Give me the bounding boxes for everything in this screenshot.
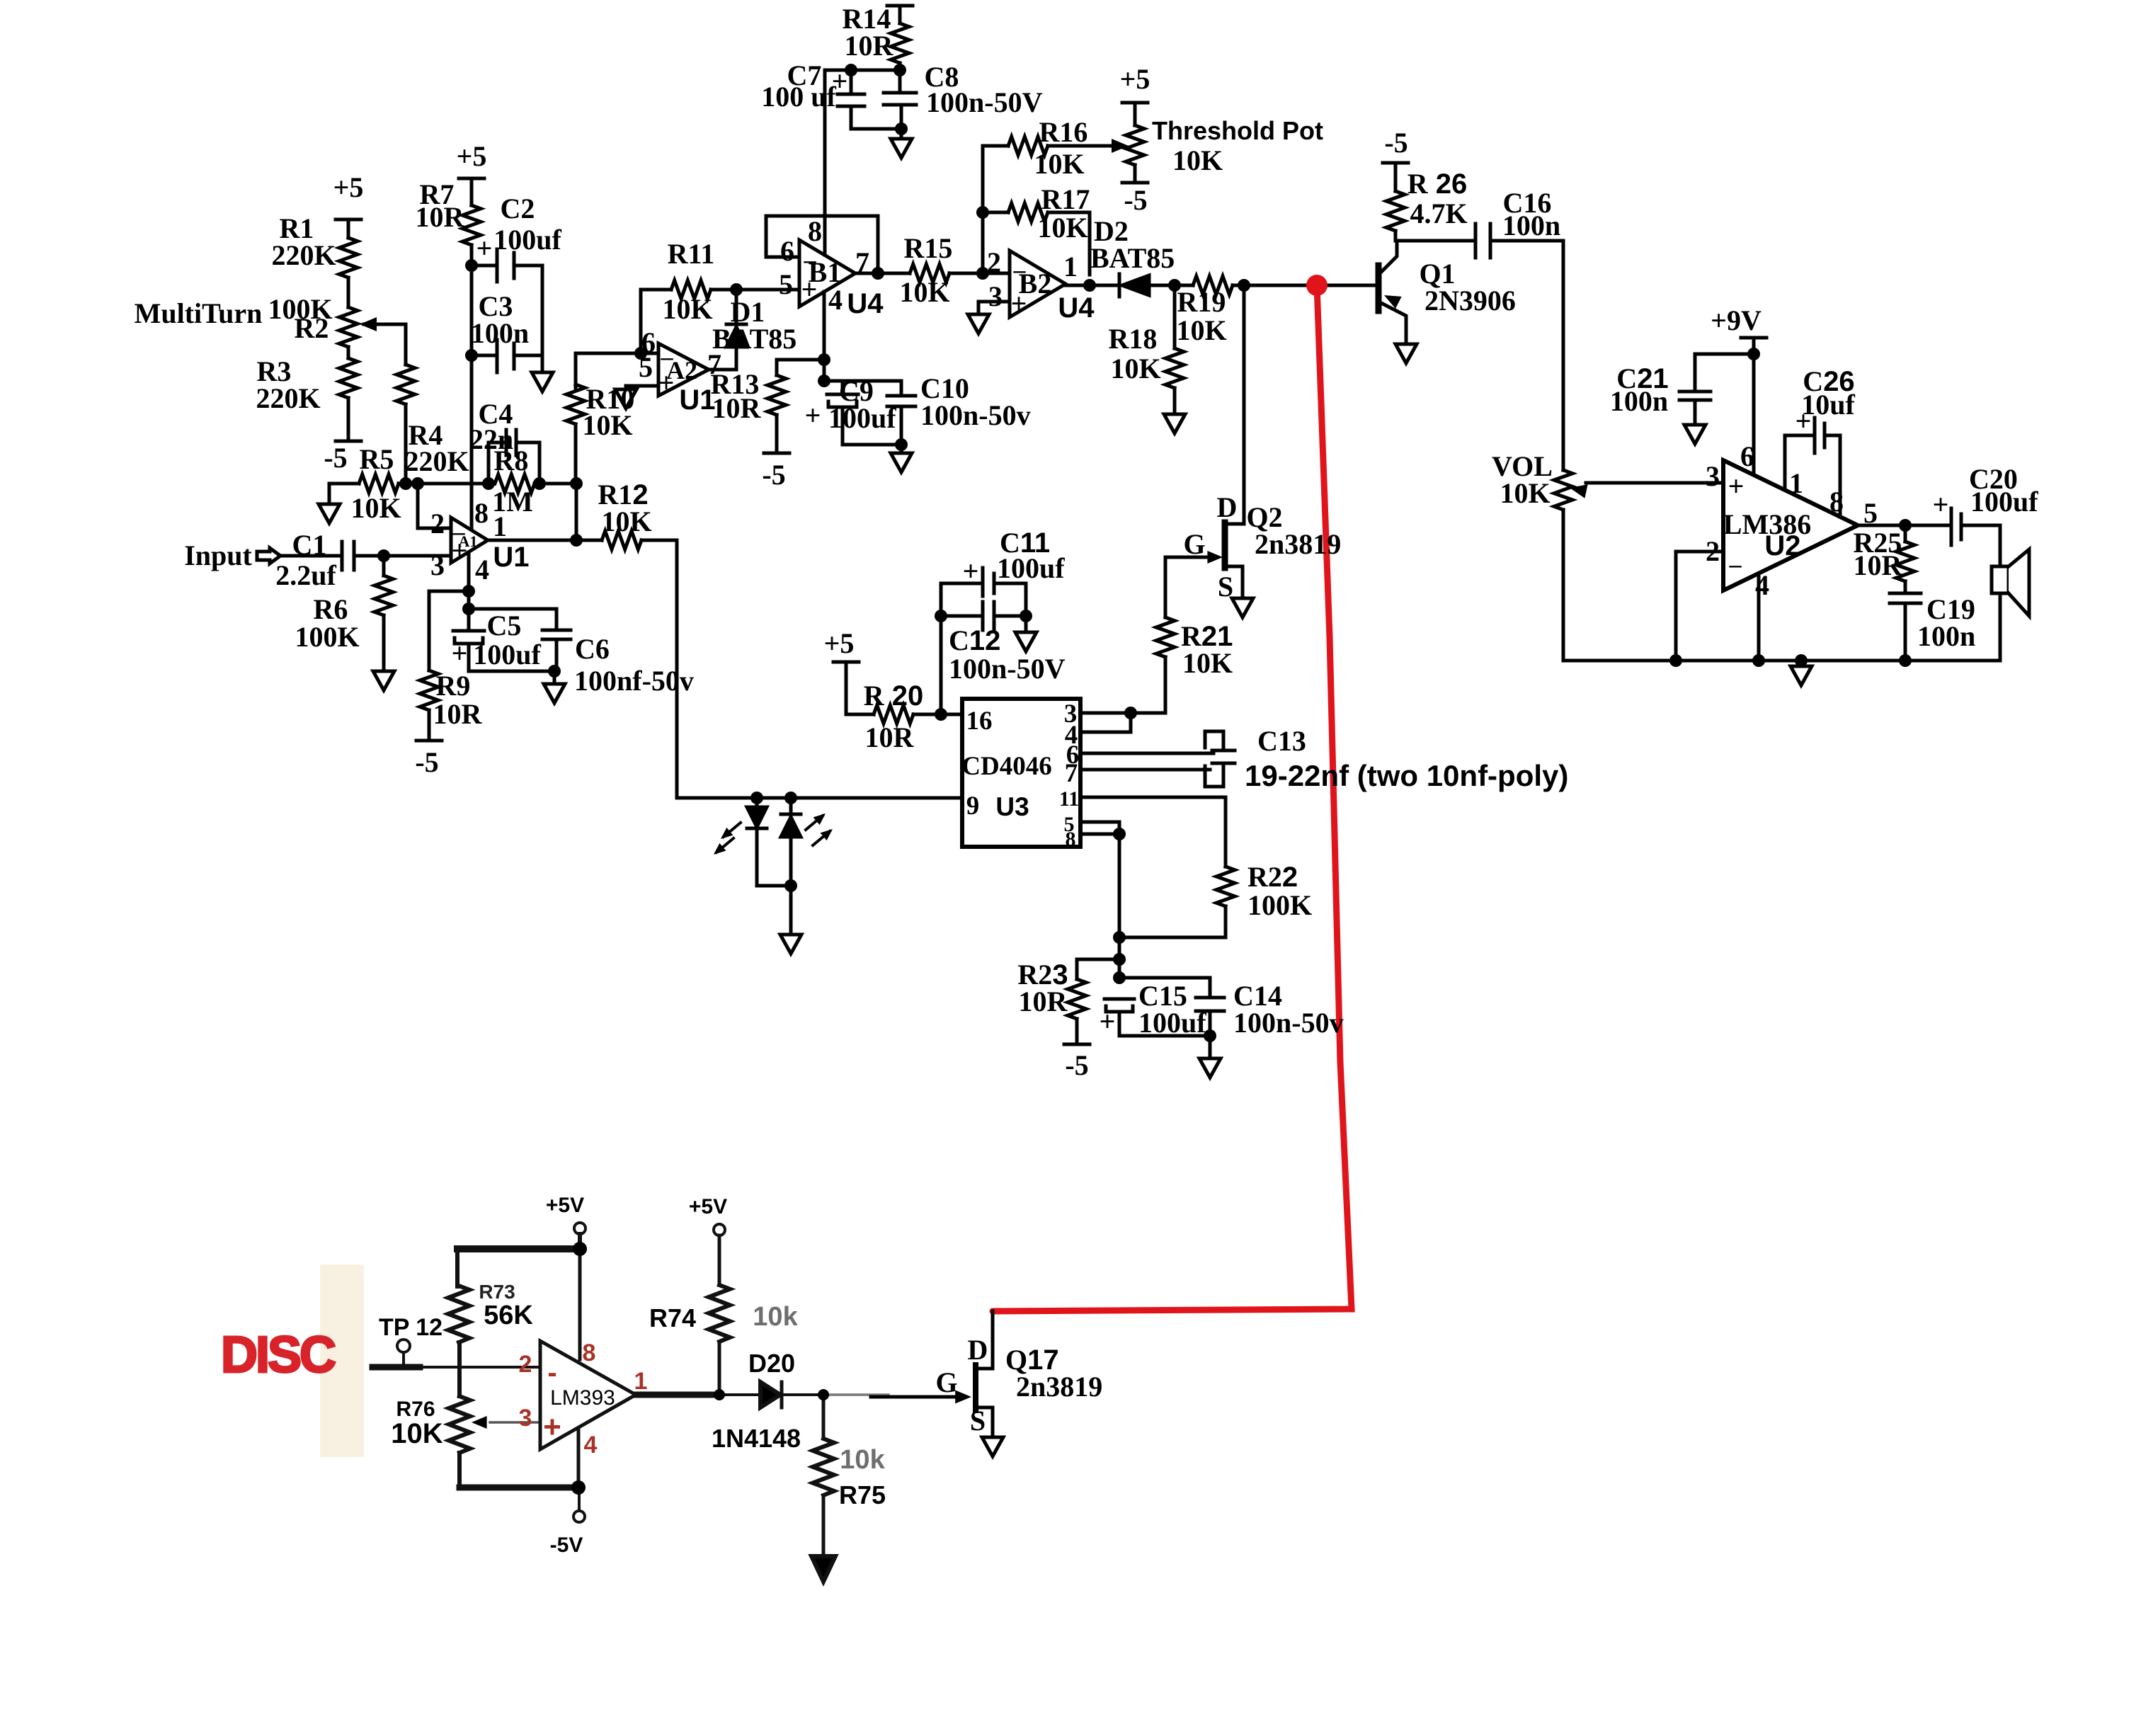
- svg-text:BAT85: BAT85: [1090, 242, 1175, 274]
- capacitor C20: [1951, 508, 2000, 566]
- svg-text:10K: 10K: [350, 492, 401, 524]
- node +5 terminal (R20): [833, 662, 874, 714]
- svg-text:9: 9: [966, 792, 980, 821]
- capacitor C15: [1104, 999, 1134, 1036]
- svg-text:+: +: [1933, 489, 1949, 520]
- svg-text:3: 3: [430, 549, 445, 581]
- ground (R75, filled): [811, 1556, 835, 1582]
- wire node to A1 pin2: [418, 484, 451, 528]
- svg-text:8: 8: [583, 1340, 596, 1366]
- ground (B2 pin3): [968, 314, 989, 333]
- svg-text:-5: -5: [415, 746, 438, 778]
- svg-text:10K: 10K: [662, 293, 712, 325]
- svg-text:3: 3: [519, 1405, 532, 1432]
- ground (R6): [373, 671, 394, 690]
- svg-text:+: +: [476, 232, 493, 264]
- resistor R11: [641, 290, 671, 353]
- svg-text:1: 1: [493, 510, 507, 542]
- svg-text:G: G: [1183, 528, 1205, 560]
- svg-text:+: +: [1011, 287, 1027, 319]
- potentiometer Threshold Pot: [1122, 103, 1148, 125]
- svg-text:10R: 10R: [1854, 549, 1903, 581]
- svg-text:16: 16: [966, 707, 993, 736]
- svg-text:8: 8: [1829, 486, 1844, 518]
- wire pins5/8 node down: [1118, 834, 1121, 978]
- svg-text:R 26: R 26: [1408, 168, 1468, 200]
- svg-text:5: 5: [779, 268, 793, 300]
- LED 1: [755, 798, 759, 807]
- wire C5 node to C6: [469, 609, 556, 630]
- svg-text:8: 8: [474, 497, 489, 529]
- resistor R15: [855, 272, 910, 275]
- wire pin4 node to R9: [429, 591, 469, 670]
- svg-text:R75: R75: [839, 1480, 886, 1509]
- capacitor C7: [838, 70, 864, 129]
- resistor R8: [495, 474, 535, 493]
- capacitor C6: [542, 630, 571, 671]
- wire pin3: [1080, 712, 1165, 715]
- resistor R5: [329, 482, 359, 486]
- svg-text:4: 4: [1755, 569, 1769, 601]
- wire C7/C8 top node: [825, 69, 900, 72]
- svg-text:6: 6: [1740, 440, 1754, 472]
- svg-text:1: 1: [1063, 251, 1078, 282]
- wire LM393 pin8: [578, 1249, 582, 1359]
- resistor R7: [462, 205, 481, 245]
- node +5 terminal (R7 top): [459, 178, 484, 205]
- svg-text:2: 2: [519, 1351, 532, 1378]
- ground (R5): [319, 504, 340, 523]
- resistor R4: [404, 324, 408, 365]
- svg-text:10R: 10R: [712, 392, 762, 424]
- node +5V terminal (LM393): [574, 1223, 586, 1234]
- svg-text:+: +: [452, 535, 468, 566]
- op-amp A1 U1: [451, 518, 488, 563]
- wire C1 to A1 pin3: [354, 554, 451, 558]
- wire C5 bottom to C6 bottom: [469, 670, 554, 673]
- capacitor C4: [489, 430, 539, 484]
- svg-text:19-22nf (two 10nf-poly): 19-22nf (two 10nf-poly): [1245, 759, 1568, 792]
- svg-text:10R: 10R: [416, 201, 465, 233]
- wire pin4: [1080, 713, 1131, 732]
- node +5V terminal (R74): [714, 1224, 725, 1235]
- transistor Q1 2N3906: [1376, 265, 1382, 311]
- wire DISC input: [372, 1364, 420, 1371]
- wire C15 bottom to C14: [1119, 1034, 1210, 1038]
- svg-text:2: 2: [987, 246, 1001, 278]
- svg-text:R2: R2: [295, 312, 329, 344]
- svg-text:+9V: +9V: [1711, 304, 1762, 336]
- svg-text:+5: +5: [1120, 63, 1151, 95]
- svg-text:100uf: 100uf: [828, 402, 896, 434]
- svg-text:10K: 10K: [1037, 212, 1087, 244]
- svg-text:+5V: +5V: [689, 1195, 727, 1218]
- svg-text:100n-50v: 100n-50v: [920, 399, 1031, 431]
- svg-text:1: 1: [1789, 467, 1803, 499]
- speaker: [1992, 566, 2009, 593]
- svg-text:2N3906: 2N3906: [1425, 285, 1516, 316]
- input block arrow: [257, 548, 280, 564]
- wire R12 to CD4046 pin9: [677, 540, 962, 798]
- svg-text:C5: C5: [487, 610, 522, 641]
- svg-text:4.7K: 4.7K: [1410, 198, 1467, 229]
- node TP12: [397, 1340, 410, 1352]
- svg-text:4: 4: [475, 554, 489, 586]
- resistor R16: [983, 144, 1008, 148]
- svg-text:100uf: 100uf: [473, 639, 541, 670]
- resistor R17: [983, 211, 1008, 215]
- svg-text:C6: C6: [575, 633, 610, 665]
- svg-text:100 uf: 100 uf: [761, 81, 836, 113]
- svg-text:R22: R22: [1248, 861, 1298, 893]
- svg-text:D20: D20: [748, 1349, 795, 1378]
- node +9V terminal: [1741, 338, 1766, 475]
- svg-text:5: 5: [1863, 497, 1878, 529]
- ground (A2 pin5): [615, 389, 636, 409]
- svg-text:100uf: 100uf: [1138, 1007, 1206, 1039]
- potentiometer VOL: [1554, 470, 1572, 510]
- svg-text:C2: C2: [501, 193, 535, 224]
- svg-text:10K: 10K: [1500, 477, 1550, 509]
- wire C7 bottom to C8 bottom: [851, 127, 901, 131]
- svg-text:+: +: [963, 555, 979, 587]
- diode D1 BAT85: [726, 290, 746, 324]
- ground (C8): [891, 139, 912, 158]
- capacitor C14: [1196, 998, 1224, 1058]
- resistor R23: [1077, 959, 1119, 979]
- capacitor C11: [941, 568, 1026, 616]
- svg-text:2: 2: [430, 508, 445, 539]
- svg-text:R 20: R 20: [864, 680, 924, 712]
- svg-text:10k: 10k: [840, 1445, 885, 1475]
- svg-text:+: +: [1728, 470, 1745, 502]
- ground (C2/C3): [532, 372, 553, 392]
- wire B2 pin3 to ground: [978, 302, 1010, 314]
- resistor R73: [448, 1286, 469, 1342]
- svg-text:D: D: [1217, 491, 1238, 523]
- ground (C14): [1199, 1058, 1221, 1078]
- B1 feedback box: [766, 216, 878, 273]
- svg-text:220K: 220K: [271, 239, 336, 271]
- svg-text:LM393: LM393: [550, 1386, 615, 1410]
- svg-text:100uf: 100uf: [493, 224, 561, 256]
- svg-text:100uf: 100uf: [997, 552, 1065, 584]
- wire U2 out: [1858, 524, 1951, 527]
- transistor Q17 2n3819: [973, 1365, 978, 1410]
- svg-text:3: 3: [988, 280, 1003, 312]
- red node: [1306, 275, 1328, 296]
- resistor R13: [777, 360, 824, 375]
- wire R7 to A1 pin8: [470, 245, 474, 530]
- op-amp B2 U4: [1010, 251, 1066, 317]
- svg-text:100n-50v: 100n-50v: [1233, 1007, 1344, 1039]
- svg-text:4: 4: [584, 1432, 598, 1458]
- svg-text:10K: 10K: [1172, 144, 1223, 176]
- wire U2 pin4: [1757, 573, 1761, 661]
- wire Q2 drain: [1226, 285, 1244, 524]
- svg-text:56K: 56K: [484, 1301, 533, 1330]
- svg-text:100n: 100n: [1502, 210, 1560, 241]
- svg-text:C1: C1: [292, 529, 327, 561]
- wire U2 pin2: [1676, 552, 1723, 661]
- capacitor C5: [453, 591, 484, 671]
- wire pin6: [1080, 752, 1214, 755]
- svg-text:100uf: 100uf: [1970, 486, 2038, 518]
- red wire: [993, 285, 1352, 1311]
- wire A1 pin4: [467, 552, 471, 591]
- diode D2 BAT85: [1118, 274, 1121, 297]
- capacitor C9: [824, 381, 901, 445]
- resistor R18: [1173, 285, 1177, 348]
- svg-text:10R: 10R: [865, 721, 915, 753]
- capacitor C13: [1205, 731, 1235, 787]
- svg-text:-5: -5: [1384, 127, 1408, 159]
- svg-text:R74: R74: [649, 1303, 696, 1332]
- wire pin5/pin8: [1080, 822, 1119, 834]
- wire R5 left to ground: [328, 484, 331, 504]
- svg-text:Threshold Pot: Threshold Pot: [1152, 116, 1323, 145]
- resistor R25: [1904, 525, 1907, 542]
- svg-text:10k: 10k: [753, 1302, 798, 1332]
- op-amp U2 LM386: [1723, 460, 1858, 590]
- svg-text:8: 8: [808, 215, 822, 247]
- svg-text:-5: -5: [324, 442, 347, 474]
- svg-text:R8: R8: [494, 445, 529, 476]
- svg-text:R73: R73: [479, 1281, 515, 1303]
- ground (C21): [1684, 425, 1706, 444]
- svg-text:10R: 10R: [433, 698, 483, 730]
- svg-text:100n: 100n: [1610, 385, 1668, 417]
- svg-text:U4: U4: [847, 288, 884, 319]
- diode D20 1N4148: [760, 1382, 780, 1407]
- svg-text:100nf-50v: 100nf-50v: [574, 665, 694, 697]
- resistor R74: [709, 1285, 730, 1342]
- op-amp A2 U1: [658, 343, 709, 396]
- svg-text:-: -: [547, 1357, 556, 1388]
- potentiometer R76: [449, 1396, 470, 1453]
- wire bottom bus LM386: [1563, 659, 2000, 663]
- capacitor C2: [472, 249, 542, 282]
- svg-text:10K: 10K: [1110, 353, 1160, 384]
- svg-text:1: 1: [634, 1368, 648, 1395]
- capacitor C1: [342, 542, 354, 570]
- svg-text:+5: +5: [457, 140, 487, 172]
- svg-text:10K: 10K: [899, 276, 949, 308]
- capacitor C26: [1785, 418, 1840, 517]
- wire R8 node to output node: [575, 484, 578, 540]
- ground (R18): [1164, 414, 1185, 433]
- wire R15 node up: [981, 146, 985, 273]
- svg-text:4: 4: [828, 284, 843, 316]
- svg-text:R19: R19: [1177, 286, 1226, 318]
- svg-text:+: +: [832, 65, 848, 97]
- LED 2: [781, 798, 801, 814]
- svg-text:+: +: [658, 367, 675, 399]
- potentiometer R2 MultiTurn: [339, 307, 358, 347]
- ground (Q2): [1232, 598, 1253, 617]
- wire R20 node to C12: [940, 616, 943, 714]
- svg-text:220K: 220K: [404, 445, 469, 477]
- resistor R6: [382, 556, 386, 576]
- resistor R19: [1193, 276, 1233, 295]
- svg-text:R16: R16: [1039, 116, 1088, 148]
- resistor R14: [887, 6, 913, 23]
- svg-text:11: 11: [1059, 787, 1079, 811]
- svg-text:BAT85: BAT85: [712, 323, 797, 355]
- svg-text:10K: 10K: [582, 409, 632, 441]
- svg-text:2n3819: 2n3819: [1016, 1371, 1102, 1403]
- svg-text:D: D: [968, 1334, 988, 1366]
- wire A2 pin5 to ground: [626, 386, 658, 389]
- capacitor C8: [884, 93, 916, 139]
- svg-text:G: G: [935, 1366, 957, 1398]
- svg-text:+: +: [1795, 405, 1812, 437]
- svg-text:5: 5: [639, 351, 653, 383]
- op-amp B1 U4: [799, 240, 855, 307]
- svg-text:C12: C12: [949, 624, 1000, 656]
- node -5V terminal (LM393): [578, 1487, 581, 1511]
- svg-text:1N4148: 1N4148: [712, 1424, 801, 1453]
- capacitor C21: [1679, 354, 1754, 425]
- resistor R3: [347, 347, 350, 358]
- svg-text:7: 7: [855, 246, 869, 278]
- svg-text:2.2uf: 2.2uf: [275, 559, 336, 591]
- wire pin7: [1080, 768, 1210, 772]
- svg-text:S: S: [970, 1405, 986, 1437]
- svg-text:100n: 100n: [471, 317, 529, 349]
- ground (C10): [891, 453, 912, 472]
- resistor R22: [1216, 867, 1235, 906]
- capacitor C10: [887, 381, 915, 453]
- svg-text:-5: -5: [1065, 1049, 1088, 1081]
- svg-text:-5: -5: [762, 459, 785, 491]
- resistor R75: [822, 1395, 826, 1437]
- resistor R21: [1164, 557, 1167, 617]
- svg-text:100n-50V: 100n-50V: [926, 86, 1043, 118]
- wire to Q17 gate: [823, 1393, 889, 1396]
- wire C15 top to C14 top: [1119, 978, 1210, 998]
- svg-text:10K: 10K: [1176, 314, 1226, 346]
- wire LM393 pin4: [577, 1430, 581, 1487]
- svg-text:6: 6: [780, 235, 794, 267]
- capacitor C12: [941, 602, 1026, 630]
- ground (C12): [1024, 616, 1028, 632]
- svg-text:U1: U1: [493, 542, 529, 573]
- IC U3 CD4046: [962, 699, 1080, 847]
- svg-text:R18: R18: [1109, 323, 1158, 355]
- svg-text:S: S: [1218, 571, 1233, 603]
- svg-text:+5: +5: [824, 627, 855, 659]
- svg-text:CD4046: CD4046: [961, 752, 1051, 781]
- capacitor C3: [472, 340, 542, 372]
- svg-text:R9: R9: [436, 670, 471, 702]
- svg-text:U2: U2: [1764, 530, 1800, 561]
- resistor R9: [420, 670, 438, 710]
- svg-text:C13: C13: [1257, 725, 1306, 757]
- svg-text:100n: 100n: [1917, 620, 1975, 652]
- ground (C6): [553, 671, 556, 684]
- ground (LEDs): [780, 935, 801, 954]
- svg-text:100n-50V: 100n-50V: [949, 653, 1066, 685]
- svg-text:100K: 100K: [1248, 889, 1312, 921]
- svg-text:R17: R17: [1041, 183, 1090, 215]
- transistor Q2 2n3819: [1222, 522, 1228, 568]
- svg-text:100K: 100K: [295, 621, 359, 653]
- svg-text:10R: 10R: [1019, 986, 1068, 1017]
- svg-text:7: 7: [1065, 759, 1078, 788]
- capacitor C19: [1890, 593, 1921, 661]
- resistor R12: [488, 539, 602, 542]
- svg-text:+: +: [543, 1410, 561, 1444]
- svg-text:TP 12: TP 12: [379, 1314, 443, 1341]
- svg-text:2n3819: 2n3819: [1255, 528, 1341, 560]
- wire pin11 to R22: [1080, 797, 1226, 867]
- resistor R26: [1383, 163, 1408, 191]
- svg-text:R5: R5: [360, 443, 394, 475]
- op-amp LM393: [540, 1341, 636, 1449]
- svg-text:-5V: -5V: [550, 1534, 583, 1557]
- svg-text:10K: 10K: [391, 1418, 443, 1449]
- wire C7 node to B1 pin8/pin4: [824, 70, 825, 381]
- resistor R20: [874, 705, 913, 724]
- wire +5V bus: [457, 1245, 580, 1252]
- svg-text:+: +: [801, 273, 818, 305]
- svg-text:+: +: [805, 399, 821, 431]
- wire B2 out: [1066, 284, 1119, 287]
- resistor R1: [339, 238, 358, 278]
- resistor R10: [574, 353, 578, 390]
- wire C9 bottom to C10 bottom: [843, 443, 901, 447]
- svg-text:10K: 10K: [601, 506, 651, 537]
- svg-text:8: 8: [1066, 828, 1076, 851]
- svg-text:R11: R11: [668, 238, 715, 270]
- svg-text:+: +: [452, 637, 468, 669]
- capacitor C16: [1475, 224, 1490, 258]
- wire -5V bus: [459, 1485, 578, 1491]
- svg-text:R15: R15: [904, 232, 953, 264]
- svg-text:MultiTurn: MultiTurn: [135, 297, 263, 329]
- svg-text:Input: Input: [184, 539, 252, 571]
- LED arrows: [711, 810, 836, 859]
- svg-text:2: 2: [1706, 535, 1720, 567]
- svg-text:10K: 10K: [1034, 148, 1084, 180]
- svg-text:3: 3: [1706, 460, 1720, 492]
- svg-text:+5V: +5V: [546, 1194, 584, 1217]
- ground (Q1): [1395, 344, 1417, 363]
- wire C2/C3 right: [541, 265, 544, 372]
- ground (Q17): [982, 1437, 1003, 1456]
- wire R10 top to A2 pin6: [576, 352, 658, 355]
- svg-text:220K: 220K: [256, 382, 320, 414]
- svg-text:10R: 10R: [845, 30, 894, 62]
- svg-text:+5: +5: [333, 171, 364, 203]
- svg-text:U4: U4: [1058, 292, 1095, 324]
- svg-text:-5: -5: [1124, 184, 1147, 216]
- svg-text:U3: U3: [995, 792, 1029, 821]
- node +5 terminal (R1 top): [336, 219, 361, 238]
- svg-text:–: –: [1729, 552, 1742, 578]
- svg-text:10K: 10K: [1182, 647, 1233, 679]
- svg-text:+: +: [1100, 1005, 1116, 1037]
- wire LM393 out: [636, 1392, 719, 1398]
- svg-text:DISC: DISC: [221, 1327, 336, 1383]
- beige highlight band: [320, 1264, 364, 1457]
- ground (LM386 bus): [1800, 661, 1803, 666]
